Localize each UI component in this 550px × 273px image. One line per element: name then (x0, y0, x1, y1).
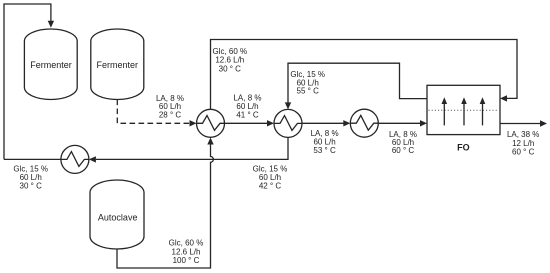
stream label Glc 15% 55C (290, 70, 325, 95)
autoclave vessel (90, 180, 144, 249)
wire HX1 to HX2 (225, 122, 268, 124)
fermenter F2 vessel (91, 29, 144, 100)
wire HX2 to HX3 (302, 122, 344, 124)
stream label LA 60C pre-FO (389, 130, 417, 155)
stream label LA 28C (156, 94, 184, 120)
wire arrowhead into FO left (LA) (420, 120, 427, 126)
wire HX4 left to recycle riser (4, 158, 61, 160)
wire arrowhead into HX4 right (89, 156, 96, 162)
svg-text:12.6 L/h: 12.6 L/h (172, 247, 201, 256)
svg-text:41 ° C: 41 ° C (236, 111, 259, 120)
stream label LA 41C (233, 93, 261, 119)
FO membrane dotted line (429, 109, 499, 111)
wire HX2 bottom to recycle cooler HX4 (96, 137, 288, 159)
svg-text:LA, 38 %: LA, 38 % (507, 130, 539, 139)
wire arrowhead into HX1 left (190, 120, 197, 126)
wire arrowhead product right (540, 120, 547, 126)
wire arrow into fermenter F1 top (48, 21, 54, 28)
svg-text:53 ° C: 53 ° C (313, 146, 336, 155)
stream label LA 53C (311, 129, 339, 155)
FO membrane unit box (427, 85, 500, 134)
wire dashed LA feed F2 to HX1 (117, 100, 189, 124)
svg-text:55 ° C: 55 ° C (297, 86, 320, 95)
svg-text:12.6 L/h: 12.6 L/h (215, 56, 244, 65)
wire Glc draw feed: HX1 top, over the top, down to FO right (211, 40, 518, 110)
svg-text:Glc, 15 %: Glc, 15 % (13, 164, 48, 173)
heat exchanger HX2 (274, 109, 302, 137)
svg-text:100 ° C: 100 ° C (173, 256, 200, 265)
wire diluted Glc return: FO left to HX2 top (288, 63, 427, 102)
svg-text:Fermenter: Fermenter (97, 60, 139, 70)
fermenter F1 vessel (24, 29, 77, 100)
wire recycle loop left/top (4, 4, 51, 159)
stream label Glc 60% 30C top (212, 47, 247, 73)
wire arrowhead into HX2 top (285, 102, 291, 109)
heat exchanger HX3 (350, 109, 378, 137)
svg-text:42 ° C: 42 ° C (259, 182, 282, 191)
stream label LA 38% product (507, 130, 539, 157)
wire arrowhead into HX2 left (267, 120, 274, 126)
svg-text:Autoclave: Autoclave (98, 212, 138, 222)
svg-text:60 ° C: 60 ° C (512, 148, 535, 157)
wire arrowhead into FO right (Glc) (500, 95, 507, 101)
svg-text:30 ° C: 30 ° C (20, 182, 43, 191)
svg-text:28 ° C: 28 ° C (159, 111, 182, 120)
heat exchanger HX4 (61, 145, 89, 173)
svg-text:60 ° C: 60 ° C (392, 146, 415, 155)
stream label Glc 15% 42C (253, 165, 288, 191)
heat exchanger HX1 (197, 109, 225, 137)
wire HX3 to FO (378, 122, 420, 124)
wire FO product out right (500, 123, 540, 125)
stream label Glc 15% 30C recycle (13, 164, 48, 190)
svg-text:60 L/h: 60 L/h (259, 173, 281, 182)
wire arrowhead into HX1 bottom (207, 138, 213, 145)
svg-text:Fermenter: Fermenter (30, 60, 72, 70)
FO flux arrow 2 (461, 97, 467, 125)
stream label Glc 60% 100C autoclave out (169, 239, 204, 265)
FO flux arrow 1 (442, 97, 448, 125)
wire autoclave outlet to HX1 bottom with jump over recycle line (117, 144, 213, 268)
wire arrowhead into HX3 left (343, 120, 350, 126)
FO flux arrow 3 (480, 97, 486, 125)
svg-text:FO: FO (457, 142, 470, 152)
svg-text:30 ° C: 30 ° C (219, 64, 242, 73)
